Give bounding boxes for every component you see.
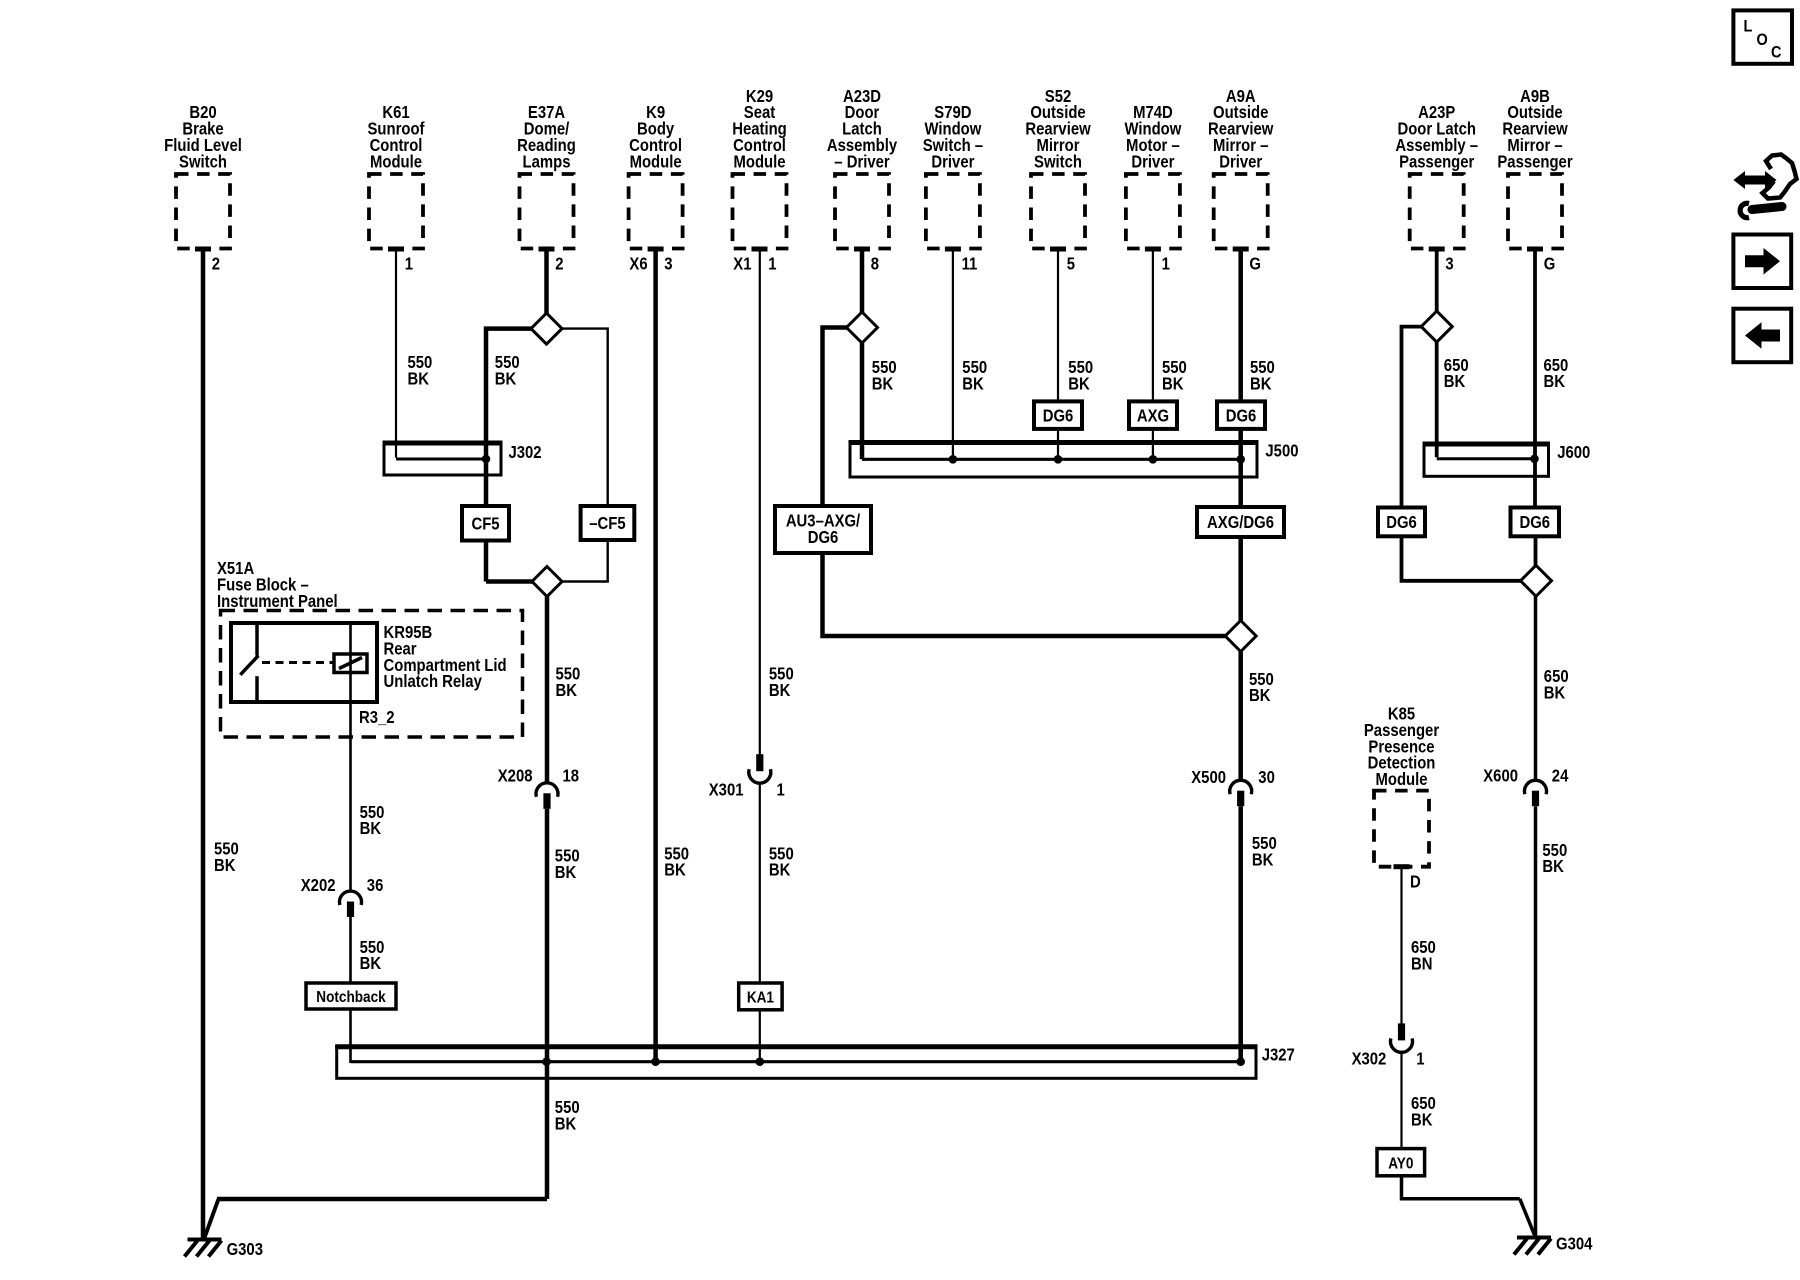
- label R3_2: [359, 708, 395, 727]
- wire S52 pin 5 to DG6 (550 BK): [1057, 249, 1059, 401]
- svg-text:X600: X600: [1483, 766, 1518, 785]
- svg-text:X500: X500: [1191, 768, 1226, 787]
- merge splice diamond (A23D/A9A): [1225, 621, 1256, 652]
- pin label D of K85: [1410, 872, 1421, 891]
- connector label X202 pin 36: [301, 876, 384, 895]
- svg-text:J500: J500: [1265, 441, 1298, 460]
- svg-text:5: 5: [1067, 254, 1075, 273]
- wire A9A pin G to DG6 (550 BK): [1238, 249, 1243, 401]
- harness code box DG6 (A23P): [1378, 508, 1425, 537]
- junction dots J327: [542, 1057, 1245, 1066]
- svg-text:BK: BK: [769, 861, 791, 880]
- svg-text:J327: J327: [1262, 1045, 1295, 1064]
- wire label 550 BK (E37A left branch): [495, 353, 520, 389]
- component A23D (A23D Door Latch Assembly - Driver): [827, 87, 897, 249]
- wire label 550 BK (below X500): [1252, 834, 1277, 870]
- wire B20 pin 2 to ground G303 (550 BK): [201, 249, 206, 1240]
- body style box Notchback: [306, 983, 396, 1009]
- label J327: [1262, 1045, 1295, 1064]
- svg-text:11: 11: [962, 254, 978, 273]
- svg-text:D: D: [1410, 872, 1421, 891]
- svg-text:18: 18: [563, 766, 580, 785]
- svg-text:BK: BK: [769, 681, 791, 700]
- svg-text:BK: BK: [1411, 1110, 1433, 1129]
- svg-text:AXG: AXG: [1137, 406, 1169, 425]
- svg-text:BK: BK: [962, 374, 984, 393]
- svg-text:O: O: [1757, 31, 1768, 49]
- svg-text:X301: X301: [709, 780, 744, 799]
- pin label 2 of B20: [212, 254, 220, 273]
- wire AXG/DG6 down to merge diamond: [1238, 537, 1243, 621]
- fuse CF5 box: [462, 506, 509, 541]
- wire DG6 to J500 (S52): [1057, 429, 1059, 459]
- wire label 550 BK (S79D wire): [962, 358, 987, 394]
- pin label 2 of E37A: [555, 254, 563, 273]
- label KR95B Rear Compartment Lid Unlatch Relay: [384, 623, 507, 692]
- connector label X500 pin 30: [1191, 768, 1275, 787]
- junction dot J302: [482, 455, 491, 464]
- svg-text:BK: BK: [1252, 850, 1274, 869]
- svg-text:BK: BK: [1249, 686, 1271, 705]
- svg-text:BN: BN: [1411, 954, 1432, 973]
- relay coil box: [334, 654, 367, 673]
- wire A23D main into splice pack J500 (550 BK): [860, 343, 865, 459]
- harness code box DG6 (A9B): [1511, 508, 1560, 537]
- relay KR95B box: [231, 623, 377, 702]
- label X51A Fuse Block - Instrument Panel: [217, 559, 338, 611]
- wire label 650 BK (A23P wire): [1444, 356, 1469, 392]
- svg-text:X302: X302: [1352, 1049, 1387, 1068]
- wire Notchback into J327: [351, 1009, 354, 1062]
- svg-text:–CF5: –CF5: [589, 514, 625, 533]
- in-line connector X301: [749, 754, 771, 783]
- svg-text:Module: Module: [733, 152, 785, 171]
- splice pack J500: [849, 443, 1259, 478]
- svg-text:J302: J302: [509, 443, 542, 462]
- pin label X1 of K29: [733, 254, 751, 273]
- svg-text:BK: BK: [1444, 372, 1466, 391]
- svg-text:BK: BK: [360, 819, 382, 838]
- svg-text:BK: BK: [1542, 857, 1564, 876]
- wire E37A right branch through -CF5: [561, 329, 608, 582]
- svg-text:G304: G304: [1556, 1234, 1592, 1253]
- svg-text:L: L: [1744, 17, 1753, 35]
- svg-text:1: 1: [405, 254, 413, 273]
- wire relay coil to connector X202 (550 BK): [349, 623, 352, 892]
- in-line connector X302: [1391, 1023, 1413, 1052]
- wire label 650 BK (A9B wire): [1544, 356, 1569, 392]
- svg-text:X1: X1: [733, 254, 751, 273]
- wire label 550 BK (K61 wire): [408, 353, 433, 389]
- in-line connector X202: [340, 891, 362, 917]
- merge splice diamond (A23P/A9B): [1521, 565, 1552, 596]
- LOC legend box: [1733, 10, 1792, 63]
- wire X600 to ground G304 (550 BK): [1534, 806, 1538, 1236]
- svg-text:BK: BK: [408, 369, 430, 388]
- svg-text:C: C: [1771, 43, 1781, 61]
- component K61 (K61 Sunroof Control Module): [368, 103, 426, 249]
- svg-text:Lamps: Lamps: [523, 152, 571, 171]
- wire DG6 down to merge diamond (A9B): [1534, 536, 1538, 565]
- svg-text:BK: BK: [214, 856, 236, 875]
- pin label G of A9A: [1249, 254, 1261, 273]
- splice pack J600: [1423, 444, 1551, 476]
- svg-text:BK: BK: [555, 1115, 577, 1134]
- splice diamond under A23P: [1421, 311, 1452, 342]
- pin label 3 of K9: [664, 254, 672, 273]
- merge splice diamond above X208: [532, 567, 562, 597]
- splice diamond under E37A: [531, 313, 562, 344]
- wire DG6 across to merge diamond (A23P branch): [1402, 536, 1522, 581]
- svg-text:Passenger: Passenger: [1497, 152, 1573, 171]
- label J600: [1557, 443, 1590, 462]
- pin label 1 of K61: [405, 254, 413, 273]
- svg-text:BK: BK: [360, 954, 382, 973]
- pin label 11 of S79D: [962, 254, 978, 273]
- wire merge diamond to connector X500 (550 BK): [1238, 652, 1243, 781]
- pin label 5 of S52: [1067, 254, 1075, 273]
- svg-text:G: G: [1544, 254, 1556, 273]
- svg-text:1: 1: [777, 780, 785, 799]
- component K9 (K9 Body Control Module): [629, 103, 683, 249]
- label J302: [509, 443, 542, 462]
- svg-text:DG6: DG6: [1519, 513, 1550, 532]
- svg-text:BK: BK: [1544, 683, 1566, 702]
- wire A23P pin 3 down to splice diamond: [1435, 249, 1439, 312]
- svg-text:1: 1: [768, 254, 776, 273]
- wire label 550 BK (below X202): [360, 938, 385, 974]
- svg-text:CF5: CF5: [471, 514, 499, 533]
- fuse block X51A dashed outline: [221, 611, 523, 738]
- component K85 Passenger Presence Detection Module: [1364, 704, 1440, 866]
- back arrow box: [1733, 309, 1791, 363]
- svg-text:G303: G303: [227, 1240, 263, 1259]
- svg-text:BK: BK: [872, 374, 894, 393]
- pin label 8 of A23D: [871, 254, 879, 273]
- in-line connector X208: [536, 783, 558, 809]
- wire A9A through J500 to AXG/DG6: [1238, 429, 1243, 507]
- relay actuating dashed link: [262, 661, 334, 664]
- wire label 650 BK (below merge diamond): [1544, 667, 1569, 703]
- svg-text:Instrument Panel: Instrument Panel: [217, 592, 338, 611]
- wire E37A pin 2 down to splice diamond: [544, 249, 549, 314]
- label G303: [227, 1240, 263, 1259]
- wire X301 to KA1 (550 BK): [759, 783, 761, 983]
- svg-text:1: 1: [1416, 1049, 1424, 1068]
- splice pack J327: [335, 1047, 1257, 1079]
- pin label 1 of M74D: [1162, 254, 1170, 273]
- wire merge diamond to connector X600 (650 BK): [1534, 596, 1538, 781]
- connector label X302 pin 1: [1352, 1049, 1425, 1068]
- wire M74D pin 1 to AXG (550 BK): [1152, 249, 1154, 401]
- in-line connector X600: [1525, 780, 1547, 806]
- wire A23D left branch to AU3-AXG/DG6 and across to diamond: [823, 328, 1226, 637]
- svg-text:DG6: DG6: [1043, 406, 1074, 425]
- harness code box DG6 (S52): [1034, 401, 1082, 429]
- label G304: [1556, 1234, 1592, 1253]
- wire X208 to J327 and ground run (550 BK): [204, 809, 547, 1239]
- svg-text:R3_2: R3_2: [359, 708, 395, 727]
- svg-text:X6: X6: [629, 254, 647, 273]
- svg-text:J600: J600: [1557, 443, 1590, 462]
- svg-text:2: 2: [555, 254, 563, 273]
- connector label X208 pin 18: [498, 766, 579, 785]
- wire label 550 BK (above X301): [769, 665, 794, 701]
- svg-text:30: 30: [1258, 768, 1275, 787]
- splice pack J302: [383, 443, 503, 475]
- wire label 650 BN: [1411, 938, 1436, 974]
- wire label 550 BK (M74D wire): [1162, 358, 1187, 394]
- wire A23P main into splice pack J600 (650 BK): [1437, 342, 1532, 459]
- diagnostic icon (double arrow, outline, wrench): [1733, 155, 1796, 218]
- svg-text:X202: X202: [301, 876, 336, 895]
- svg-text:2: 2: [212, 254, 220, 273]
- wire X302 to AY0 (650 BK): [1400, 1052, 1402, 1149]
- svg-text:Module: Module: [630, 152, 682, 171]
- wire KA1 to J327: [759, 1010, 761, 1062]
- wire label 550 BK (above X202): [360, 803, 385, 839]
- pin label X6 of K9: [629, 254, 647, 273]
- wire label 550 BK (K9 wire): [664, 844, 689, 880]
- component A9B (A9B Outside Rearview Mirror - Passenger): [1497, 87, 1573, 249]
- harness code box AXG/DG6: [1197, 507, 1284, 537]
- svg-text:BK: BK: [664, 861, 686, 880]
- svg-text:Driver: Driver: [1219, 152, 1263, 171]
- svg-text:BK: BK: [1068, 374, 1090, 393]
- svg-text:BK: BK: [556, 681, 578, 700]
- wire E37A left branch through J302 and CF5 (550 BK): [486, 329, 533, 582]
- component E37A (E37A Dome/Reading Lamps): [517, 103, 576, 249]
- wire label 550 BK (below X301): [769, 844, 794, 880]
- svg-text:X208: X208: [498, 766, 533, 785]
- junction dot J600: [1530, 455, 1539, 464]
- svg-text:BK: BK: [1250, 374, 1272, 393]
- svg-text:DG6: DG6: [1226, 406, 1257, 425]
- svg-text:Driver: Driver: [931, 152, 975, 171]
- connector label X301 pin 1: [709, 780, 785, 799]
- svg-text:G: G: [1249, 254, 1261, 273]
- wire label 550 BK (below X208): [555, 847, 580, 883]
- component B20 (B20 Brake Fluid Level Switch): [164, 103, 242, 249]
- component M74D (M74D Window Motor - Driver): [1124, 103, 1181, 249]
- svg-text:Passenger: Passenger: [1399, 152, 1475, 171]
- component A9A (A9A Outside Rearview Mirror - Driver): [1208, 87, 1274, 249]
- connector label X600 pin 24: [1483, 766, 1568, 785]
- svg-text:3: 3: [664, 254, 672, 273]
- relay switch contact: [240, 624, 258, 701]
- svg-text:BK: BK: [1544, 372, 1566, 391]
- wire A9B pin G through J600 to DG6 (650 BK): [1533, 249, 1537, 508]
- svg-text:24: 24: [1552, 766, 1569, 785]
- svg-text:Switch: Switch: [1034, 152, 1082, 171]
- component S52 (S52 Outside Rearview Mirror Switch): [1025, 87, 1091, 249]
- harness code box KA1: [739, 983, 782, 1010]
- svg-text:BK: BK: [495, 369, 517, 388]
- wire AY0 to ground G304: [1402, 1176, 1535, 1235]
- svg-text:DG6: DG6: [808, 528, 839, 547]
- wire label 550 BK (below J327): [555, 1098, 580, 1134]
- wire A23D pin 8 down to splice diamond: [860, 249, 865, 313]
- forward arrow box: [1733, 235, 1791, 289]
- wire X500 to J327 (550 BK): [1238, 806, 1243, 1061]
- svg-text:AY0: AY0: [1388, 1155, 1413, 1172]
- svg-text:Switch: Switch: [179, 152, 227, 171]
- wire S79D pin 11 to J500 (550 BK): [952, 249, 954, 459]
- svg-text:– Driver: – Driver: [834, 152, 890, 171]
- svg-text:8: 8: [871, 254, 879, 273]
- wire AXG to J500 (M74D): [1152, 429, 1154, 459]
- label J500: [1265, 441, 1298, 460]
- pin label G of A9B: [1544, 254, 1556, 273]
- svg-text:Driver: Driver: [1131, 152, 1175, 171]
- wire merged E37A branch down to connector X208 (550 BK): [545, 597, 550, 784]
- ground G304 symbol: [1514, 1238, 1551, 1255]
- wire K9 pin X6-3 to J327 (550 BK): [653, 249, 658, 1062]
- svg-text:BK: BK: [1162, 374, 1184, 393]
- splice diamond under A23D: [847, 312, 878, 343]
- pin label 3 of A23P: [1445, 254, 1453, 273]
- wire label 550 BK (above X208): [556, 665, 581, 701]
- wire label 550 BK (below merge diamond): [1249, 670, 1274, 706]
- svg-text:BK: BK: [555, 863, 577, 882]
- harness code box AY0: [1377, 1149, 1425, 1176]
- wire label 550 BK (below X600): [1542, 841, 1567, 877]
- component A23P (A23P Door Latch Assembly - Passenger): [1395, 103, 1478, 249]
- harness code box DG6 (A9A): [1217, 401, 1265, 429]
- component S79D (S79D Window Switch - Driver): [923, 103, 983, 249]
- junction dots J500: [949, 455, 1245, 464]
- harness code box AXG (M74D): [1129, 401, 1177, 429]
- svg-text:Notchback: Notchback: [316, 989, 386, 1006]
- wire label 550 BK (S52 wire): [1068, 358, 1093, 394]
- wire label 650 BK (below X302): [1411, 1094, 1436, 1130]
- svg-text:AXG/DG6: AXG/DG6: [1207, 513, 1274, 532]
- svg-text:36: 36: [367, 876, 384, 895]
- wire A23P left branch to DG6: [1402, 327, 1422, 508]
- svg-text:Module: Module: [1375, 770, 1427, 789]
- component K29 (K29 Seat Heating Control Module): [732, 87, 787, 249]
- wire label 550 BK (B20 wire): [214, 839, 239, 875]
- wire X202 to Notchback (550 BK): [349, 917, 352, 983]
- wire label 550 BK (A23D wire): [872, 358, 897, 394]
- svg-text:1: 1: [1162, 254, 1170, 273]
- fuse -CF5 box: [581, 506, 635, 540]
- svg-text:DG6: DG6: [1386, 513, 1417, 532]
- ground G303 symbol: [185, 1240, 222, 1257]
- svg-text:Unlatch Relay: Unlatch Relay: [384, 672, 482, 691]
- svg-text:3: 3: [1445, 254, 1453, 273]
- svg-text:Module: Module: [370, 152, 422, 171]
- wire K61 pin 1 into splice pack J302 (550 BK): [396, 249, 484, 459]
- harness code box AU3-AXG/DG6: [775, 506, 871, 553]
- wire K29 pin X1-1 to connector X301 (550 BK): [759, 249, 761, 755]
- in-line connector X500: [1230, 780, 1252, 806]
- pin label 1 of K29: [768, 254, 776, 273]
- wire label 550 BK (A9A wire): [1250, 358, 1275, 394]
- svg-text:KA1: KA1: [747, 990, 774, 1007]
- wire K85 pin D to connector X302 (650 BN): [1400, 867, 1402, 1024]
